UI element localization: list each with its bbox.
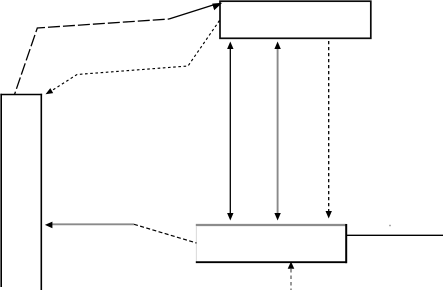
vertical arrow 2 (double-headed, gray shaft) bbox=[277, 48, 279, 215]
wire solid tail of polyline bbox=[169, 4, 216, 19]
wire dashed diagonal into bottom box left edge bbox=[134, 224, 197, 243]
stray dot bbox=[389, 225, 391, 227]
wire horizontal line from bottom box to right edge bbox=[346, 234, 443, 236]
box top-right bbox=[220, 1, 371, 38]
wire short-dash polyline from top-right box to left box bbox=[52, 21, 220, 91]
bottom box left edge (light) bbox=[195, 226, 197, 262]
vertical arrow 1 (double-headed solid) bbox=[229, 48, 231, 215]
arrowhead into left box top-right corner bbox=[46, 88, 54, 94]
box left tall rectangle (open at bottom) bbox=[2, 95, 41, 291]
left horizontal arrow (gray shaft, black head) bbox=[52, 223, 134, 225]
box bottom (edges drawn separately) bbox=[197, 226, 345, 262]
left box top edge bbox=[0, 94, 42, 96]
bottom box bottom edge bbox=[196, 261, 347, 263]
bottom dashed gray up-arrow into bottom box bbox=[290, 269, 292, 290]
arrowhead into top-right box corner bbox=[212, 3, 222, 10]
bottom box right edge bbox=[345, 224, 347, 263]
wire long-dash polyline from left box top to top-right box bbox=[15, 19, 170, 95]
left box left edge bbox=[0, 94, 2, 287]
vertical dashed arrow 3 (down arrowhead only) bbox=[328, 41, 330, 212]
bottom box top edge (gray) bbox=[196, 224, 347, 226]
left box right edge bbox=[40, 94, 42, 290]
